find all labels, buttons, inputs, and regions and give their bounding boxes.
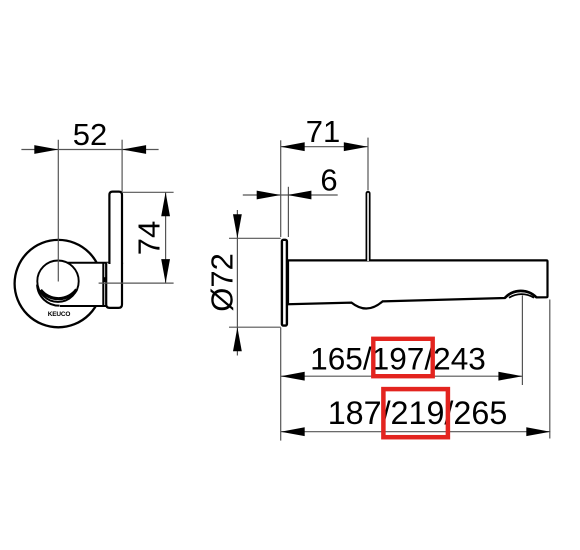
handle body outline xyxy=(60,263,109,306)
wall plate xyxy=(282,240,287,326)
rosette circle xyxy=(15,240,102,327)
arrow 74 up xyxy=(161,192,170,216)
arrow 74 down xyxy=(161,259,170,283)
lever grip shaft xyxy=(109,192,122,264)
spout outlet lip arc xyxy=(505,291,537,298)
red highlight box 219 xyxy=(383,389,448,437)
extension line outlet xyxy=(521,295,523,385)
dimension line 187/219/265 xyxy=(281,431,551,433)
lever base piece xyxy=(106,263,122,308)
handle knob circle xyxy=(37,261,78,302)
svg-text:165/197/243: 165/197/243 xyxy=(310,341,486,377)
spout outlet inner arc xyxy=(509,294,534,298)
center line 74 bottom xyxy=(99,282,174,284)
dimension line 6 xyxy=(243,194,338,196)
extension line wall upper xyxy=(280,140,282,237)
svg-text:187/219/265: 187/219/265 xyxy=(328,395,508,431)
extension line diameter bottom xyxy=(229,326,281,328)
arrow 187 right xyxy=(526,427,550,436)
extension line diameter top xyxy=(229,237,281,239)
arrow 71 right xyxy=(344,142,368,151)
extension line 52 right xyxy=(121,140,123,192)
dimension line 52 xyxy=(21,149,158,151)
temperature stick xyxy=(366,192,369,261)
dimension line diameter 72 xyxy=(236,210,238,356)
svg-text:Ø72: Ø72 xyxy=(204,253,239,312)
dimension line 74 xyxy=(165,192,167,283)
arrow diameter top xyxy=(233,214,242,238)
extension line plate right upper xyxy=(287,187,289,237)
dimension line 165/197/243 xyxy=(281,375,523,377)
extension line 52 left / center xyxy=(57,140,59,282)
svg-text:74: 74 xyxy=(132,221,167,255)
knob dome thick arc xyxy=(41,290,77,299)
extension line spout tip xyxy=(549,300,551,439)
spout body xyxy=(288,260,548,308)
arrow 187 left xyxy=(281,427,305,436)
arrow 165 left xyxy=(281,372,305,381)
arrow 52 left xyxy=(34,145,58,154)
extension line stick xyxy=(367,138,369,191)
arrow 6 left xyxy=(257,191,281,200)
dimension line 71 xyxy=(281,146,368,148)
red highlight box 197 xyxy=(373,339,432,376)
knob dome crescent arc xyxy=(37,285,60,306)
arrow 165 right xyxy=(498,372,522,381)
svg-text:52: 52 xyxy=(73,117,107,152)
handle body fill xyxy=(60,263,103,306)
extension line 74 top xyxy=(122,191,174,193)
svg-text:6: 6 xyxy=(320,163,337,198)
arrow 71 left xyxy=(281,142,305,151)
arrow 6 right xyxy=(287,191,311,200)
svg-text:KEUCO: KEUCO xyxy=(48,311,71,318)
arrow 52 right xyxy=(122,145,146,154)
svg-text:71: 71 xyxy=(306,114,340,149)
arrow diameter bottom xyxy=(233,327,242,351)
extension line wall lower xyxy=(280,328,282,441)
clamp slot xyxy=(103,277,106,282)
